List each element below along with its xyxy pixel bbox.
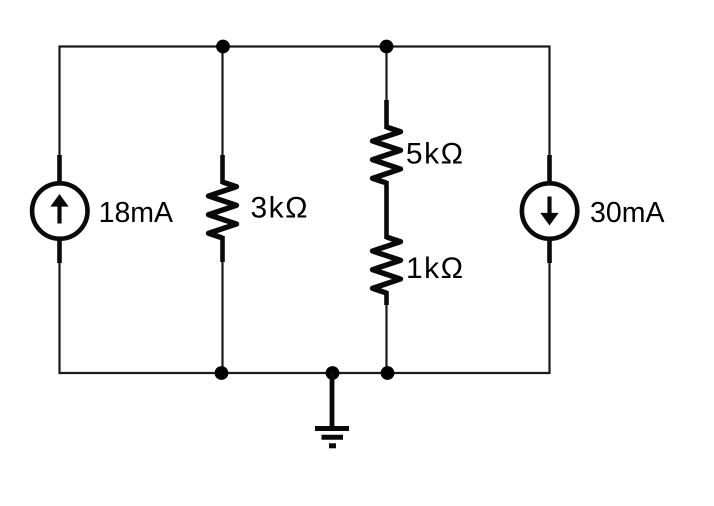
current source I2 30mA	[522, 155, 577, 263]
svg-text:18mA: 18mA	[99, 197, 173, 229]
node C bottom junction 3k branch	[215, 366, 229, 380]
wire 3k branch upper	[221, 47, 223, 157]
wire 5k-1k branch upper	[385, 47, 387, 102]
resistor R3 1k	[373, 237, 401, 305]
node D bottom junction ground	[326, 366, 340, 380]
wire left branch lower	[58, 262, 60, 374]
wire right branch upper	[548, 46, 550, 157]
node B top junction 5k branch	[380, 40, 394, 54]
wire bottom rail	[59, 372, 551, 374]
wire top rail	[59, 45, 551, 47]
node E bottom junction 1k branch	[381, 366, 395, 380]
wire link between R2 and R3	[384, 181, 389, 239]
ground	[315, 371, 349, 446]
svg-text:3kΩ: 3kΩ	[251, 192, 310, 225]
svg-text:1kΩ: 1kΩ	[406, 252, 465, 285]
wire left branch upper	[58, 46, 60, 157]
wire 5k-1k branch lower	[385, 304, 387, 373]
resistor R2 5k	[373, 100, 401, 183]
resistor R1 3k	[209, 155, 237, 262]
node A top junction 3k branch	[216, 40, 230, 54]
svg-text:30mA: 30mA	[590, 197, 664, 229]
wire 3k branch lower	[221, 261, 223, 373]
svg-text:5kΩ: 5kΩ	[406, 138, 465, 171]
wire right branch lower	[548, 262, 550, 374]
current source I1 18mA	[32, 155, 87, 263]
